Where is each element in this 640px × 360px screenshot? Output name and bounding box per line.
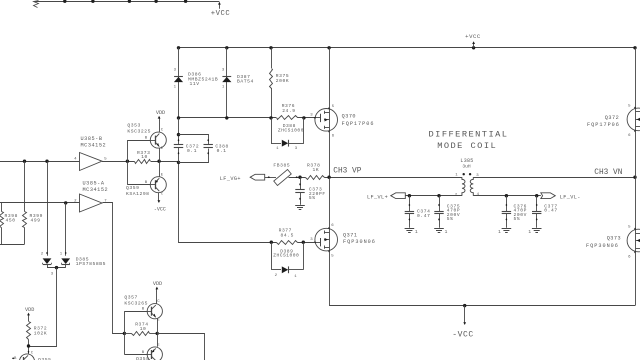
svg-text:MODE COIL: MODE COIL (437, 141, 497, 151)
junction on top bus 2 (91, 0, 94, 3)
wire bases vertical Q353/Q359 (127, 140, 129, 185)
svg-text:102K: 102K (34, 331, 47, 337)
svg-text:+VCC: +VCC (465, 33, 481, 40)
svg-text:LF_VL+: LF_VL+ (367, 194, 388, 200)
svg-text:-VCC: -VCC (154, 206, 166, 212)
capacitor C372 (178, 139, 180, 142)
svg-text:KSC3265: KSC3265 (124, 300, 148, 306)
capacitor C375 (439, 196, 441, 212)
wire D386 vertical (178, 48, 180, 118)
svg-text:CH3 VP: CH3 VP (333, 167, 361, 175)
transistor Q358 (124, 354, 147, 356)
svg-text:-VCC: -VCC (452, 330, 474, 339)
inductor L385 winding 1-2 (462, 177, 465, 196)
diode D388 bypass (271, 118, 273, 143)
wire U385-B output line (102, 161, 135, 163)
svg-text:MC34152: MC34152 (81, 143, 107, 149)
svg-text:450: 450 (6, 218, 16, 224)
resistor R377 (277, 241, 298, 245)
junction C372 bottom (177, 161, 180, 164)
wire Q370 drain to bus (329, 48, 331, 109)
net label LF_VL- (541, 193, 556, 199)
junction at R399 drop (23, 160, 26, 163)
resistor R376 (277, 116, 298, 120)
junction emitters Q353/Q359 (157, 160, 160, 163)
wire R373 to emitters junction (151, 161, 179, 163)
ground C373 (295, 205, 305, 207)
junction emitters Q357/Q358 (156, 332, 159, 335)
op-amp U385-B (80, 153, 103, 171)
svg-text:5%: 5% (514, 216, 521, 222)
junction C377 (535, 194, 538, 197)
svg-text:5%: 5% (447, 216, 454, 222)
transistor Q357 (124, 311, 147, 313)
junction C374 (408, 194, 411, 197)
junction CH3_VP at FETs (327, 176, 330, 179)
svg-text:200K: 200K (276, 78, 289, 84)
capacitor C374 (409, 196, 411, 212)
wire D385 pin1 vertical (65, 203, 67, 256)
svg-text:ZHCS1000: ZHCS1000 (278, 128, 304, 134)
power VDD (Q357) (156, 291, 158, 303)
capacitor C388 (207, 139, 209, 142)
svg-text:VDD: VDD (156, 110, 165, 116)
resistor R372 (28, 317, 30, 321)
svg-text:Q372: Q372 (605, 115, 619, 121)
junction bus right corner (633, 46, 636, 49)
svg-text:CH3 VN: CH3 VN (594, 169, 622, 177)
transistor Q372 (P-ch MOSFET) (627, 108, 640, 131)
resistor stub (cut off at top edge) (34, 1, 39, 8)
junction on top bus 1 (63, 0, 66, 3)
power -VCC (rail) (464, 306, 466, 324)
zener D386 (174, 77, 183, 82)
svg-text:FQP17P06: FQP17P06 (587, 122, 620, 128)
svg-text:BAT54: BAT54 (237, 79, 254, 85)
wire R378 to Q370/Q371 node (325, 177, 462, 179)
ferrite bead FB385 (274, 169, 292, 185)
wire CH3_VN line (473, 177, 635, 179)
diode D389 bypass (271, 242, 273, 270)
capacitor C377 (536, 196, 538, 212)
transistor Q353 (127, 140, 150, 142)
svg-text:Q358: Q358 (136, 356, 149, 360)
diode D387 (222, 77, 231, 82)
svg-text:24.9: 24.9 (282, 108, 295, 114)
junction bases Q353/Q359 (126, 160, 129, 163)
svg-text:1: 1 (415, 229, 418, 235)
svg-text:+VCC: +VCC (211, 10, 231, 18)
wire Q358 emitter up (157, 333, 159, 346)
svg-text:MC34152: MC34152 (83, 187, 109, 193)
wire -VCC rail bottom (329, 305, 635, 307)
svg-text:LF_VG+: LF_VG+ (220, 176, 241, 182)
svg-text:1: 1 (445, 229, 448, 235)
svg-text:11V: 11V (190, 81, 200, 87)
svg-text:3uH: 3uH (462, 163, 471, 169)
wire R376 to Q370 gate (297, 117, 315, 119)
power +VCC (top left rail) (219, 3, 221, 9)
wire Q373 drain up (635, 177, 637, 230)
svg-text:LF_VL-: LF_VL- (560, 194, 581, 200)
wire D387 vertical (226, 48, 228, 118)
transistor Q359 (127, 184, 150, 186)
power +VCC (main bus) (473, 42, 475, 47)
capacitor C373 (300, 177, 302, 189)
svg-text:KSA1298: KSA1298 (126, 191, 150, 197)
svg-text:Q370: Q370 (342, 113, 356, 119)
wire flag to FB385 (265, 177, 276, 179)
svg-text:Q357: Q357 (124, 295, 137, 301)
wire D385 pin2 vertical (47, 161, 49, 256)
svg-text:FQP30N06: FQP30N06 (343, 239, 376, 245)
svg-text:VDD: VDD (25, 307, 34, 313)
wire U385-A input line (0, 202, 80, 204)
junction on top bus 4 (154, 0, 157, 3)
junction on top bus 5 (184, 0, 187, 3)
junction CH3_VP at C373 (298, 176, 301, 179)
junction bus at +VCC symbol (472, 46, 475, 49)
junction at D385 pin2 drop (45, 160, 48, 163)
wire Q373 source down to rail (635, 252, 637, 306)
junction bus at Q370 drain (327, 46, 330, 49)
wire U385-A output down (103, 203, 125, 334)
svg-text:1PS7858B5: 1PS7858B5 (76, 261, 106, 267)
svg-text:84.5: 84.5 (281, 232, 294, 238)
transistor Q373 (N-ch MOSFET) (627, 229, 640, 252)
wire Q372 source down (635, 131, 637, 178)
svg-text:0.1: 0.1 (217, 148, 227, 154)
wire D385 pin3 down (29, 268, 57, 347)
svg-text:U385-A: U385-A (83, 180, 105, 186)
svg-text:KSC3225: KSC3225 (127, 129, 151, 135)
junction C375 (437, 194, 440, 197)
dual diode D385 (46, 252, 48, 255)
wire Q371 drain up (329, 177, 331, 228)
junction R372/Q355 (27, 344, 30, 347)
resistor R373 (135, 160, 151, 164)
svg-text:1K: 1K (313, 167, 320, 173)
wire gate line Q370 (179, 117, 277, 119)
wire output Q357/Q358 pair (158, 334, 205, 360)
svg-text:L385: L385 (460, 158, 473, 164)
power VDD (Q353) (159, 121, 161, 133)
wire gate line Q371 (179, 163, 277, 243)
resistor R399 (24, 161, 26, 211)
svg-text:FQP17P06: FQP17P06 (342, 121, 375, 127)
svg-text:0.47: 0.47 (544, 208, 557, 214)
junction -VCC rail (463, 304, 466, 307)
wire Q357 emitter down (157, 319, 159, 334)
capacitor C376 (506, 196, 508, 212)
svg-text:R372: R372 (34, 325, 47, 331)
svg-text:10: 10 (140, 326, 147, 332)
wire LF_VL+ line (406, 195, 462, 197)
svg-text:DIFFERENTIAL: DIFFERENTIAL (429, 130, 509, 140)
wire Q353 emitter (159, 148, 161, 161)
svg-text:Q371: Q371 (343, 233, 357, 239)
svg-text:Q359: Q359 (126, 185, 139, 191)
junction bus at R375 (269, 46, 272, 49)
transistor Q371 (N-ch MOSFET) (315, 228, 338, 251)
resistor R398 (cut at left edge) (1, 203, 3, 212)
wire Q359 emitter up (159, 161, 161, 177)
svg-text:FB385: FB385 (273, 163, 290, 169)
op-amp U385-A (80, 194, 103, 212)
svg-text:1: 1 (498, 229, 501, 235)
svg-text:VDD: VDD (153, 281, 162, 287)
wire Q370 source down (329, 131, 331, 177)
resistor R375 (271, 48, 273, 68)
wire right FET vertical top (635, 48, 637, 109)
wire resistor bottoms (0, 244, 25, 246)
wire +VCC bus (main) (179, 47, 636, 49)
svg-text:Q373: Q373 (607, 235, 621, 241)
junction R374 left (123, 332, 126, 335)
wire C372 upper (178, 118, 180, 145)
junction bus at D387 (225, 46, 228, 49)
svg-text:ZHCS1000: ZHCS1000 (273, 252, 299, 258)
svg-text:U385-B: U385-B (81, 136, 103, 142)
wire FB385 to node (289, 177, 306, 179)
inductor L385 winding 3-4 (470, 177, 473, 196)
svg-text:FQP30N06: FQP30N06 (586, 243, 619, 249)
wire LF_VL- line (473, 195, 541, 197)
resistor R378 (306, 176, 325, 180)
svg-text:0.47: 0.47 (417, 213, 430, 219)
junction CH3_VN at FETs (633, 176, 636, 179)
resistor R374 (132, 332, 150, 336)
junction C376 (505, 194, 508, 197)
junction on top bus 3 (128, 0, 131, 3)
svg-text:5%: 5% (309, 195, 316, 201)
junction C372/C388 top branch (177, 133, 180, 136)
wire U385-B input line (0, 161, 80, 163)
wire Q371 source down to -VCC rail (329, 251, 331, 306)
junction bus at D386 (177, 46, 180, 49)
svg-text:10: 10 (141, 154, 148, 160)
wire to C388 bottom (179, 149, 209, 163)
svg-text:499: 499 (31, 218, 41, 224)
power -VCC (Q359) (158, 193, 160, 202)
svg-text:0.1: 0.1 (187, 148, 197, 154)
junction at D385 pin1 drop (64, 201, 67, 204)
wire bases vertical Q357/Q358 (124, 311, 126, 354)
svg-text:Q353: Q353 (127, 122, 140, 128)
wire top VCC bus (34, 1, 220, 3)
svg-text:1: 1 (528, 229, 531, 235)
wire C388 branch top (179, 135, 209, 145)
L385 phase dots (463, 173, 465, 175)
transistor Q370 (P-ch MOSFET) (315, 109, 338, 132)
